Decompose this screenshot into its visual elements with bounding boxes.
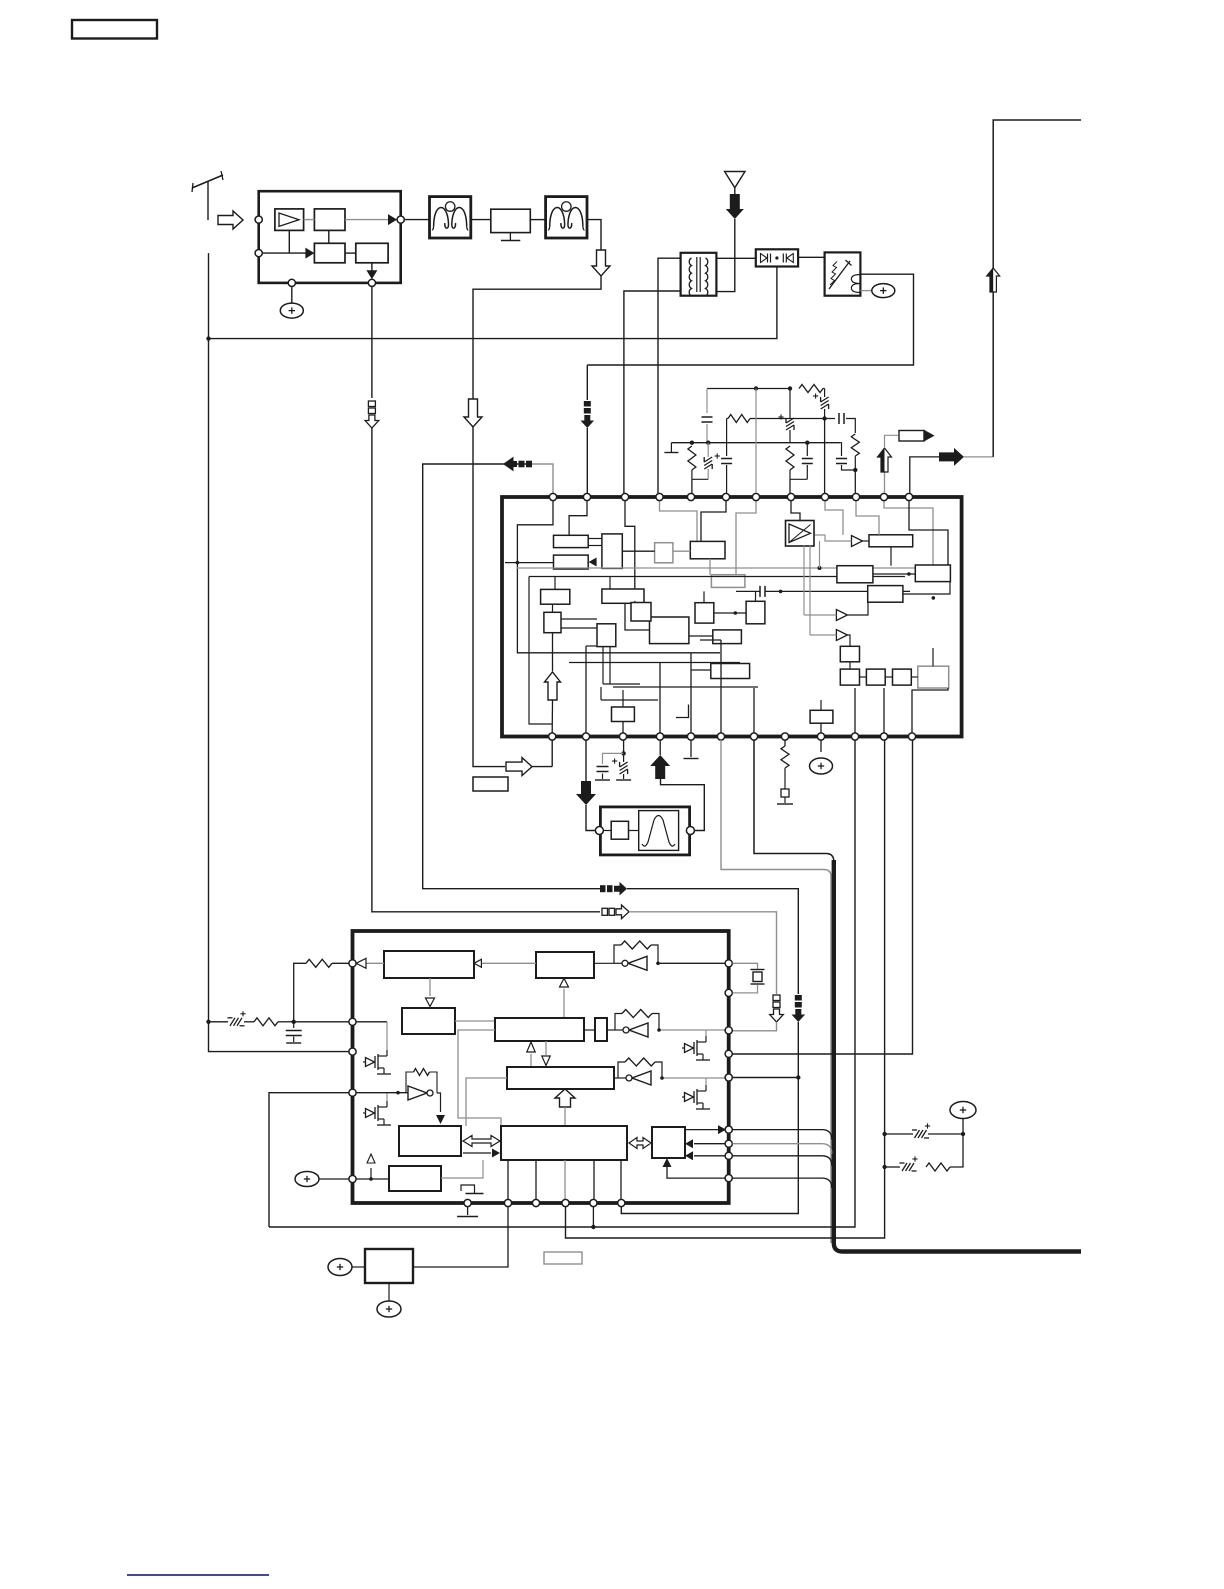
U301 inv2 res xyxy=(622,1010,652,1018)
wire IF into pin552 xyxy=(532,766,552,768)
U201 connector reg1-tall xyxy=(588,538,602,540)
U201 wire pll4 right xyxy=(903,582,950,594)
U301 bottom pin b2 xyxy=(504,1199,511,1206)
amplifier A1 xyxy=(275,209,304,231)
U201 wire div4 top xyxy=(932,648,934,666)
wire B top xyxy=(532,464,553,493)
U301 left pin l4 xyxy=(349,1089,356,1096)
junction R3 xyxy=(853,468,857,472)
U201 wire pin3 jog xyxy=(625,500,635,589)
U201 block det g xyxy=(711,575,745,588)
arrow antenna feed xyxy=(726,194,744,219)
U201 block pll3 xyxy=(837,566,873,583)
wire R9 to junction xyxy=(278,1021,294,1023)
U301 left pin l5 xyxy=(349,1175,356,1182)
page frame label box xyxy=(72,20,157,39)
U301 mosfet m3 xyxy=(685,1044,694,1053)
trap T1 xyxy=(491,209,531,232)
arrowhead into output pin xyxy=(388,214,397,225)
U201 wire pin855 up xyxy=(854,688,856,733)
page footer line xyxy=(127,1574,269,1576)
relay RL101 xyxy=(825,252,861,295)
U201 long dark line xyxy=(529,576,905,578)
U201 wire pin909 jog xyxy=(909,500,948,565)
U201 wire pin884 jog xyxy=(884,500,933,565)
arrow power flag xyxy=(939,448,964,466)
U301 dbl arrow cpu-io xyxy=(629,1138,651,1149)
junction left rail zener row xyxy=(206,1020,210,1024)
signal arrow into module xyxy=(218,211,243,229)
wire wireA into pin xyxy=(733,1022,777,1031)
relay coil xyxy=(851,275,860,293)
U201 block tall xyxy=(602,534,622,569)
wire B mid xyxy=(423,464,600,889)
U201 block if2 xyxy=(602,589,644,603)
crystal X1 loop xyxy=(733,963,758,969)
wire pin623 down xyxy=(623,740,625,753)
U201 block div1 xyxy=(840,669,859,685)
U201 bottom pin 16 xyxy=(656,733,663,740)
U201 wire if2 top xyxy=(609,577,611,590)
wire amp bias junction xyxy=(288,230,290,253)
wire diode box to relay xyxy=(798,256,825,258)
U201 bottom pin 23 xyxy=(880,733,887,740)
U201 block bx9 xyxy=(597,624,616,647)
U201 tri1 xyxy=(852,536,863,547)
U201 wire bx8-bx9 a xyxy=(561,618,597,620)
U201 block bx17 xyxy=(746,601,765,624)
U301 wire inv3 out xyxy=(614,1077,626,1079)
wire R8 to pin xyxy=(332,962,349,964)
U201 wire pll3-pll2 xyxy=(873,573,915,575)
U201 wire pin586 up xyxy=(585,646,587,733)
U201 block bx10 xyxy=(612,707,635,722)
U301 inv4 res stubs xyxy=(406,1072,414,1093)
U201 block pll1 xyxy=(869,535,913,547)
U301 bottom pin b5 xyxy=(590,1199,597,1206)
wire VR1 down xyxy=(388,1283,390,1301)
pin module in1 xyxy=(255,216,262,223)
wire pin884 long xyxy=(566,740,885,1238)
junction H3 c xyxy=(805,441,809,445)
U201 buffer stubs xyxy=(803,546,805,615)
block B2 xyxy=(314,243,345,262)
U301 wire regB right xyxy=(441,1160,483,1178)
block B1 xyxy=(314,209,345,231)
pad square xyxy=(784,768,786,789)
arrow wireB left xyxy=(503,457,517,472)
zener D5 xyxy=(885,1166,900,1168)
U301 dbl arrow regA-cpu xyxy=(463,1136,500,1147)
U201 bottom pin 22 xyxy=(851,733,858,740)
U301 block io xyxy=(652,1127,685,1158)
pin module out2 xyxy=(368,279,375,286)
wire gnd pin to battery xyxy=(291,287,293,304)
wire transformer upper-left xyxy=(658,258,681,493)
wire wireA to right xyxy=(629,912,777,994)
U201 wire bx16 left xyxy=(691,669,711,671)
lower IC outline U301 xyxy=(353,931,729,1203)
U301 right pin r7 xyxy=(725,1140,732,1147)
cap C7 xyxy=(293,1022,295,1028)
U201 bottom pin 21 xyxy=(817,733,824,740)
U201 long line 662 xyxy=(569,662,740,664)
wire D5 loop xyxy=(950,1134,963,1167)
gnd C7 xyxy=(286,1042,301,1044)
U201 bottom pin 17 xyxy=(687,733,694,740)
U201 bottom pin 18 xyxy=(717,733,724,740)
resistor R5 xyxy=(786,446,794,470)
U301 block pwm xyxy=(495,1018,584,1041)
wire grey H1 drop xyxy=(755,389,757,494)
U201 wire div2-div3 xyxy=(885,676,892,678)
U301 inv4 xyxy=(408,1086,427,1100)
junction decouple xyxy=(621,751,625,755)
cap C5 xyxy=(840,443,842,456)
gnd R6 xyxy=(777,803,793,805)
U301 wire io in2 xyxy=(694,1155,725,1157)
wire RF out down xyxy=(371,287,373,399)
wire pin691 feed xyxy=(691,479,693,493)
U201 block bx16 xyxy=(711,664,750,679)
U201 wire pin791 jog xyxy=(791,500,800,521)
U201 wire pin6 jog xyxy=(701,500,726,542)
U301 wire pwmleft loop xyxy=(458,1030,501,1126)
junction D4 right xyxy=(961,1132,965,1136)
U301 wire modleft loop xyxy=(466,1078,507,1126)
wire R5 down xyxy=(789,470,791,479)
arrow into filter xyxy=(576,781,596,805)
U201 block bx12 xyxy=(650,617,689,644)
U301 inv3 res xyxy=(625,1058,655,1066)
U201 top pin 3 xyxy=(621,493,628,500)
U201 block mix1 xyxy=(655,543,673,563)
U301 block mod xyxy=(507,1067,614,1089)
U201 wire bx28 up xyxy=(820,700,822,710)
transformer T101 xyxy=(681,253,717,296)
U201 bottom pin 14 xyxy=(582,733,589,740)
wire arrow to riser xyxy=(964,456,993,458)
arrow wireB down xyxy=(795,995,802,1001)
U301 arrow regA-cpu2 xyxy=(463,1152,491,1154)
U201 junction pll4 xyxy=(932,596,936,600)
U201 wire reg2 stub xyxy=(505,562,554,564)
zener D3 xyxy=(789,389,791,419)
junction left rail xyxy=(206,336,210,340)
junction wireB pin xyxy=(796,1075,800,1079)
zener D4 xyxy=(885,1133,913,1135)
wire pin791 feed xyxy=(789,479,791,493)
gnd D6 xyxy=(616,779,631,781)
U301 bottom pin b1 xyxy=(464,1199,471,1206)
wire relay to battery xyxy=(860,290,871,292)
junction H1 b xyxy=(788,386,792,390)
U201 block pll2 xyxy=(915,565,950,582)
U201 block osc xyxy=(690,541,725,558)
U201 block bx15 xyxy=(713,630,742,644)
wire R4 down xyxy=(691,470,693,479)
U201 wire pin7 jog xyxy=(736,500,756,575)
U201 wire div0-div1 xyxy=(849,662,851,669)
U301 block pwm cap xyxy=(595,1018,607,1041)
arrow filter2 output xyxy=(592,250,610,276)
U201 block pll4 xyxy=(868,586,903,603)
U301 wire dec2 right xyxy=(455,1020,495,1022)
U201 tri2 xyxy=(836,610,847,621)
U301 inv1 res xyxy=(621,941,651,949)
cap C2 xyxy=(721,458,732,460)
wire amp to B1 xyxy=(304,219,315,221)
pin module in2 xyxy=(255,250,262,257)
U201 wire tri2 out xyxy=(847,602,868,615)
cap C3 xyxy=(838,413,840,424)
wire pin821 battery xyxy=(820,740,822,752)
gnd H3 left xyxy=(670,443,672,452)
wire pin909 up xyxy=(910,457,939,493)
arrow IF feed xyxy=(464,399,482,427)
U301 right pin r5 xyxy=(725,1074,732,1081)
U201 bottom pin 15 xyxy=(619,733,626,740)
U201 wire pll1 down xyxy=(890,547,892,566)
U301 mosfet m1 xyxy=(366,1058,375,1067)
U201 wire bx9 stubs xyxy=(602,647,604,684)
resistor R6 xyxy=(781,746,789,768)
wire B1 bottom to B2 top xyxy=(328,230,330,243)
wire 269 riser xyxy=(269,1093,349,1227)
pin module out1 xyxy=(397,216,404,223)
zener D6 xyxy=(623,753,625,762)
U201 top pin 1 xyxy=(549,493,556,500)
U301 m4 drain up xyxy=(705,1078,707,1085)
U201 block bx28 xyxy=(810,710,833,723)
U301 mosfet m2 xyxy=(366,1109,375,1118)
U201 bottom pin 20 xyxy=(781,733,788,740)
diode pair symbols xyxy=(761,254,768,263)
U201 block div0 xyxy=(840,646,859,662)
junction H2 right xyxy=(822,416,826,420)
wire antenna lead xyxy=(207,182,209,221)
U201 grey vert xyxy=(819,541,821,568)
resistor R1 xyxy=(799,385,823,393)
wire antenna2 lead xyxy=(716,219,734,292)
U301 arrow ctl to dec1 xyxy=(481,962,536,964)
wire pin b2 to reg xyxy=(413,1206,508,1267)
bus merge r9 xyxy=(733,1177,823,1179)
FL3 wire inner xyxy=(603,830,611,832)
diode limiter box D101 xyxy=(756,249,798,266)
U201 top pin 11 xyxy=(880,493,887,500)
U301 right pin r4 xyxy=(725,1050,732,1057)
U201 arrowhead reg2 xyxy=(589,558,597,567)
resistor R8 xyxy=(306,959,332,967)
bandpass filter FL1 xyxy=(430,197,471,238)
U301 wire io in1 xyxy=(694,1143,725,1145)
U301 arrow pwm down xyxy=(545,1041,547,1055)
U201 block div2 xyxy=(866,669,885,685)
U201 top pin 7 xyxy=(752,493,759,500)
U301 inv3 res stubs xyxy=(618,1062,625,1078)
FL3 inner block xyxy=(611,821,628,839)
U201 top pin 5 xyxy=(687,493,694,500)
battery B101 xyxy=(280,303,303,318)
U201 wire pin4 jog xyxy=(660,500,698,542)
U301 block ctl xyxy=(536,952,594,978)
U301 left pin l3 xyxy=(349,1048,356,1055)
power bus thick xyxy=(834,860,1081,1252)
U201 long line 687 xyxy=(613,686,758,688)
wire pin884 up xyxy=(884,472,886,493)
U301 m2 drain xyxy=(386,1093,388,1101)
arrow feed pin587 xyxy=(584,401,591,407)
junction y1227 xyxy=(591,1225,595,1229)
battery B304 xyxy=(377,1301,401,1317)
U201 wire bx13 top xyxy=(703,591,705,602)
U301 inv2 res stubs xyxy=(615,1014,622,1031)
U201 wire tri1 out xyxy=(863,540,870,542)
junction zener hi xyxy=(882,1132,886,1136)
junction H3 a xyxy=(690,441,694,445)
U201 block div4 xyxy=(918,666,949,688)
U301 arrow dec1 down xyxy=(429,978,431,996)
wire left rail bottom xyxy=(209,1022,350,1052)
wire module to filter1 xyxy=(404,219,429,221)
wire RF down lower xyxy=(372,428,600,912)
U301 arrow into reg box xyxy=(436,1115,445,1124)
U201 wire pin884b up xyxy=(883,688,885,733)
U201 wire tri2 in xyxy=(804,614,836,616)
crystal X1 xyxy=(751,969,765,971)
U201 wire bx8 down xyxy=(552,633,554,671)
wire relay output loop xyxy=(587,274,913,365)
gnd pin691 xyxy=(684,758,699,760)
U201 wire bx13-bx17 xyxy=(714,612,746,614)
U201 wire bx12-bx15 xyxy=(689,635,713,637)
U301 junction inv3 xyxy=(660,1076,664,1080)
U301 wire pin964 to inv1 xyxy=(658,962,725,964)
U301 wire pin1179 xyxy=(356,1178,389,1180)
wire zener row xyxy=(209,1021,229,1023)
U201 cap internal xyxy=(759,586,761,597)
bandpass filter FL2 xyxy=(546,197,587,238)
U201 top pin 2 xyxy=(583,493,590,500)
arrow on riser xyxy=(987,268,1000,292)
block B3 xyxy=(356,243,388,262)
regulator VR1 xyxy=(365,1249,413,1283)
U301 arrow dec1 to pin xyxy=(366,962,384,964)
arrow wireA segmented down xyxy=(773,995,780,1001)
gnd pin b1 xyxy=(467,1206,469,1215)
U301 inv3 xyxy=(632,1071,651,1085)
U201 block if1 xyxy=(541,589,570,604)
U301 junction inv1 xyxy=(656,962,660,966)
U301 wire pin1030 to inv2 xyxy=(659,1029,725,1031)
U201 wire tri1 in xyxy=(815,535,852,541)
U201 wire pin721 up xyxy=(720,640,722,733)
U201 wire pin1 jog xyxy=(517,500,720,653)
wire B to drop xyxy=(627,889,798,994)
U201 top pin 8 xyxy=(787,493,794,500)
U201 wire bx28 to pin xyxy=(820,723,822,733)
U201 tri3 xyxy=(836,630,847,641)
wire arrow660 xyxy=(659,740,661,755)
battery B201 xyxy=(810,758,833,774)
wire arrow to filter xyxy=(586,805,596,831)
wire pin587 feed xyxy=(586,365,588,400)
arrow wireB right xyxy=(600,885,606,892)
wire R8 left xyxy=(294,963,306,1022)
U301 bottom pin b6 xyxy=(618,1199,625,1206)
arrow half-filled up xyxy=(878,448,892,472)
wire left rail xyxy=(208,253,210,1022)
resistor R4 xyxy=(688,446,696,470)
U301 right pin r2 xyxy=(725,989,732,996)
antenna ANT1 xyxy=(192,175,223,188)
battery B301 xyxy=(950,1102,976,1119)
FL3 sine box xyxy=(639,811,679,851)
U201 block bx8 xyxy=(544,612,561,632)
U201 wire div3-div4 xyxy=(911,676,918,678)
zener D7 sym xyxy=(230,1018,235,1026)
wire B1 to output pin xyxy=(345,219,397,221)
U201 wire if1 to bx8 xyxy=(552,604,554,612)
arrowhead into B2 xyxy=(305,248,314,259)
ceramic filter FL3 box xyxy=(600,807,689,855)
gnd C6 xyxy=(595,779,610,781)
U201 junction cap line xyxy=(779,590,783,594)
wire pin586 down xyxy=(585,740,587,781)
U201 wire pin856 jog xyxy=(856,500,879,535)
label box small xyxy=(544,1252,582,1264)
wire pin825 feed xyxy=(824,419,826,494)
U301 wire io up xyxy=(667,1166,725,1178)
U201 block div3 xyxy=(893,669,912,685)
wire H1 xyxy=(707,388,792,390)
relay switch xyxy=(829,261,850,289)
U301 junction inv4 xyxy=(396,1091,400,1095)
U201 wire bx10 to pin xyxy=(622,722,624,734)
junction H3 b xyxy=(706,441,710,445)
wire trap to filter2 xyxy=(530,219,545,221)
U301 wire inv4 out xyxy=(437,1093,441,1112)
U201 wire pin754 up xyxy=(753,688,755,733)
battery B303 xyxy=(328,1259,352,1276)
U301 right pin r3 xyxy=(725,1027,732,1034)
wire input bias xyxy=(263,252,306,254)
wire decouple left xyxy=(603,753,624,764)
wire antenna2 stem xyxy=(734,188,736,194)
U201 block reg2 xyxy=(554,555,589,569)
wire B2 to B3 xyxy=(345,252,356,254)
resistor R7 xyxy=(926,1163,950,1171)
U301 wire inv2 out xyxy=(607,1029,623,1031)
U301 right pin r9 xyxy=(725,1175,732,1182)
antenna ANT2 xyxy=(725,172,745,188)
U201 wire pin2 jog xyxy=(569,500,587,535)
U201 block bxX xyxy=(631,603,651,622)
wire pin754 elbow xyxy=(754,740,826,854)
wire pin856 feed xyxy=(854,470,856,493)
U201 top pin 4 xyxy=(656,493,663,500)
U301 left pin l1 xyxy=(349,960,356,967)
pin module gnd xyxy=(288,279,295,286)
wire H2 xyxy=(750,418,835,420)
U301 wire pin1093 inv4 xyxy=(356,1092,408,1094)
U201 junction pll xyxy=(907,572,911,576)
zener D4 sym xyxy=(915,1130,920,1138)
power riser xyxy=(993,120,1081,457)
wire R1 right xyxy=(823,388,825,390)
U301 arrow ctl up xyxy=(563,989,565,1018)
